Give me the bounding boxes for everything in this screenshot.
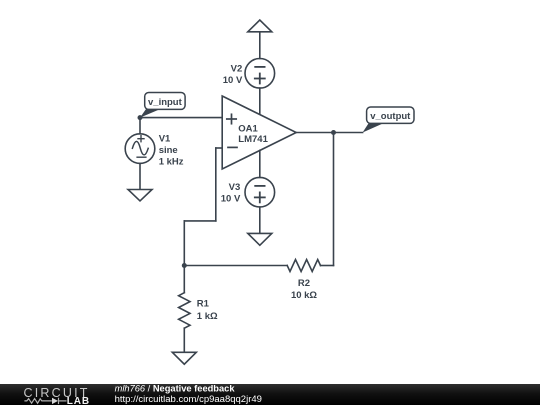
ground under V3 (248, 233, 272, 245)
svg-text:mlh766 / Negative feedback: mlh766 / Negative feedback (115, 384, 236, 394)
svg-text:V1: V1 (159, 133, 171, 144)
ground under V1 (128, 190, 152, 201)
svg-text:V3: V3 (229, 182, 241, 193)
svg-text:R1: R1 (197, 298, 210, 309)
voltage source V1 sine (125, 134, 155, 164)
footer bar (0, 384, 540, 405)
net flag v_output (363, 107, 414, 133)
wire op-amp minus input feedback (184, 148, 222, 266)
label V1 sine 1 kHz (159, 133, 184, 167)
wire op-amp output (296, 132, 362, 134)
resistor R2 (184, 260, 333, 272)
wire V3 to ground (259, 207, 261, 233)
ground under R1 (172, 352, 196, 364)
svg-text:v_input: v_input (148, 97, 183, 108)
wire V1 to ground (139, 163, 141, 189)
svg-text:LAB: LAB (67, 396, 90, 405)
label V2 10 V (223, 64, 243, 86)
wire op-amp bottom to V3 (259, 150, 261, 177)
svg-text:http://circuitlab.com/cp9aa8qq: http://circuitlab.com/cp9aa8qq2jr49 (115, 394, 262, 405)
wire V2 to op-amp top (259, 88, 261, 115)
svg-text:LM741: LM741 (238, 134, 268, 145)
wire feedback vertical R2 to output (333, 133, 335, 266)
label V3 10 V (221, 182, 241, 204)
svg-text:sine: sine (159, 145, 178, 156)
label R1 1 kOhm (197, 298, 218, 322)
svg-text:1 kHz: 1 kHz (159, 157, 184, 168)
power supply VCC arrow (248, 20, 272, 59)
voltage source V3 (245, 177, 275, 207)
resistor R1 (179, 266, 190, 353)
svg-text:V2: V2 (231, 64, 243, 75)
label OA1 LM741 (238, 124, 268, 145)
wire input node to op-amp plus input (140, 117, 222, 119)
op-amp OA1 (222, 96, 296, 169)
node output junction (331, 130, 336, 135)
CircuitLab logo (24, 386, 91, 405)
svg-text:v_output: v_output (370, 111, 411, 122)
label R2 10 kOhm (291, 278, 317, 301)
voltage source V2 (245, 59, 275, 89)
svg-text:10 kΩ: 10 kΩ (291, 290, 317, 301)
svg-text:10 V: 10 V (223, 75, 243, 86)
wire node to V1 (139, 118, 141, 134)
svg-text:10 V: 10 V (221, 193, 241, 204)
svg-text:R2: R2 (298, 278, 310, 289)
svg-text:1 kΩ: 1 kΩ (197, 311, 218, 322)
node input junction (138, 115, 143, 120)
node R1 R2 junction (182, 263, 187, 268)
net flag v_input (140, 93, 185, 118)
